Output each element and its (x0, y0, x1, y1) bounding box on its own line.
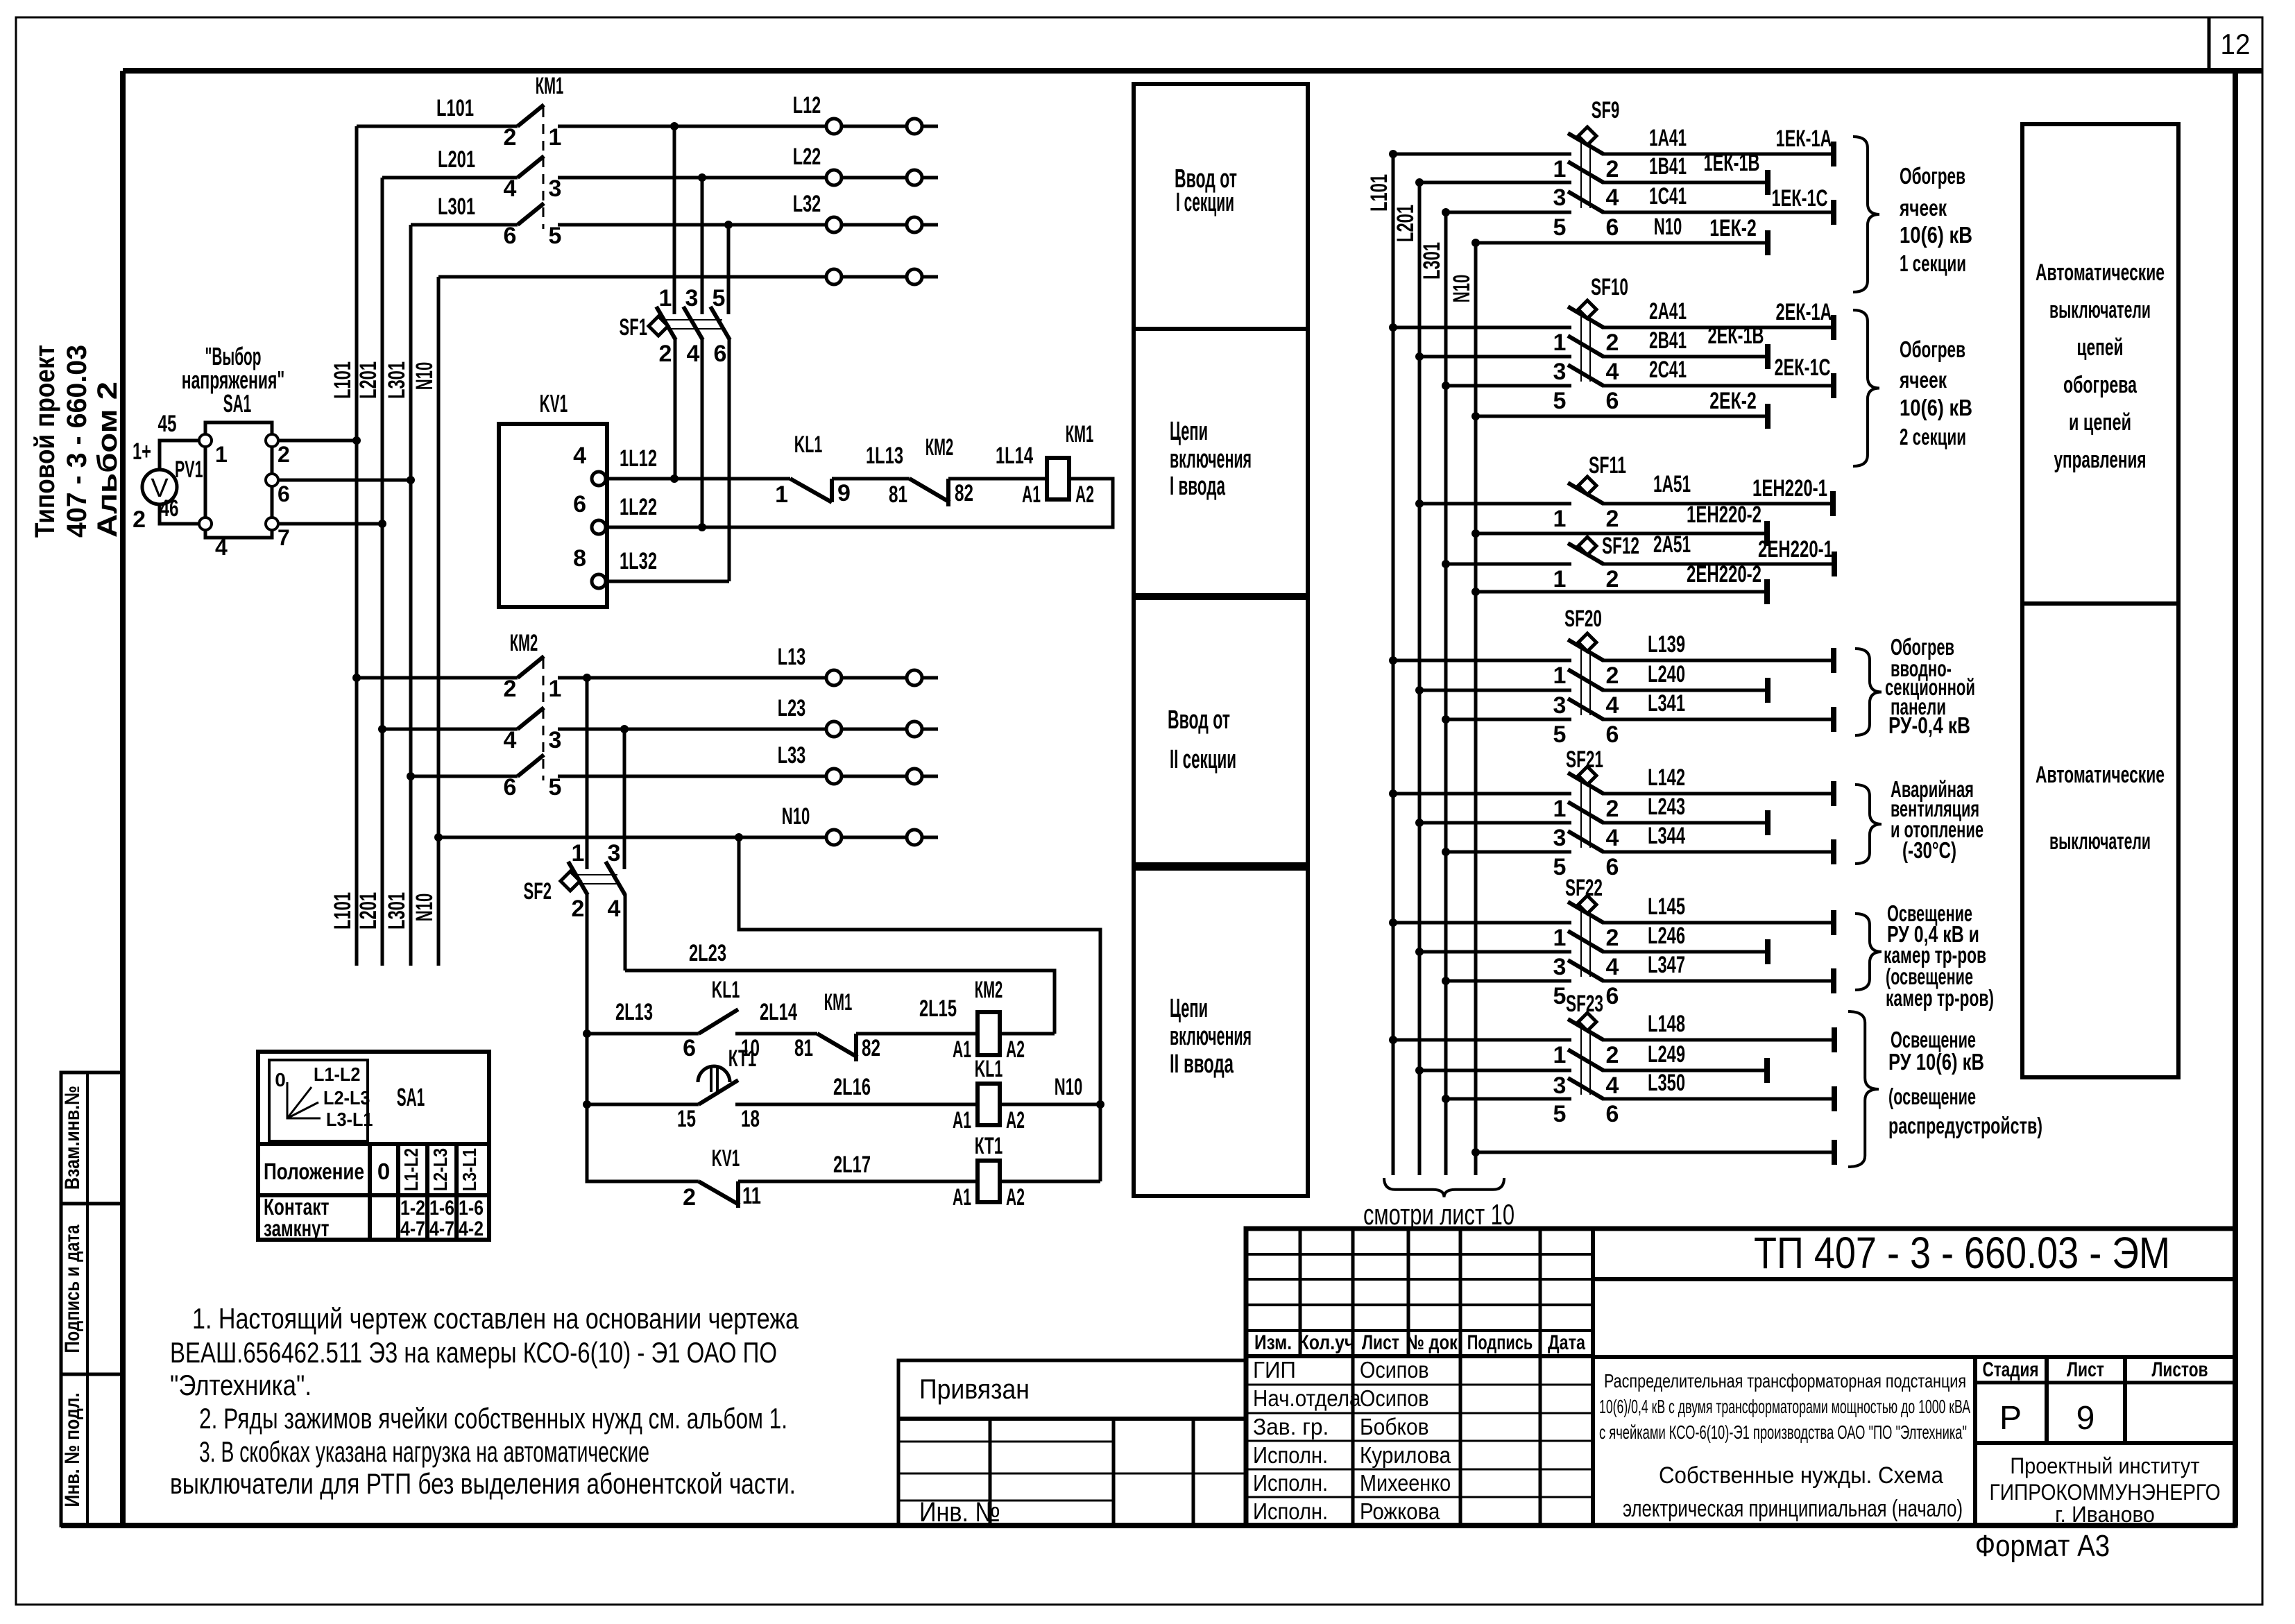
terminal circle L13 b (907, 670, 922, 685)
svg-text:1: 1 (1553, 506, 1567, 532)
main frame left line (120, 71, 126, 1525)
svg-text:Обогрев: Обогрев (1900, 336, 1965, 362)
svg-text:Кол.уч: Кол.уч (1299, 1331, 1355, 1354)
wire 2L13 (587, 1032, 699, 1036)
svg-text:выключатели: выключатели (2049, 297, 2151, 323)
breaker SF1 diamond (649, 316, 668, 336)
terminal tick L246 (1765, 939, 1771, 964)
junction L101 on bus (352, 674, 361, 682)
breaker SF23 diamond (1578, 1013, 1596, 1031)
svg-text:6: 6 (1606, 388, 1619, 414)
wire SF21 L344 output (1602, 851, 1834, 854)
svg-text:Зав. гр.: Зав. гр. (1253, 1414, 1329, 1439)
main frame top line (123, 68, 2262, 74)
breaker SF9 blade (1568, 133, 1603, 154)
wire 1L12 (606, 477, 790, 481)
svg-text:3: 3 (1553, 692, 1567, 719)
svg-text:1L12: 1L12 (620, 445, 657, 472)
wire 1A51 output (1602, 502, 1833, 506)
junction SF12 N10 (1471, 588, 1480, 596)
svg-text:электрическая принципиальная (: электрическая принципиальная (начало) (1623, 1496, 1963, 1522)
svg-text:9: 9 (837, 480, 851, 506)
svg-text:5: 5 (1553, 983, 1567, 1009)
svg-text:1-6: 1-6 (429, 1197, 454, 1220)
terminal circle L22 b (907, 170, 922, 185)
terminal circle N10t a (826, 269, 842, 284)
breaker SF10 diamond (1578, 300, 1596, 318)
wire SF23 pole input (1393, 1038, 1571, 1042)
svg-text:6: 6 (1606, 854, 1619, 880)
svg-text:2C41: 2C41 (1649, 357, 1687, 383)
bus L101 vertical (355, 126, 359, 966)
svg-text:1: 1 (1553, 566, 1567, 592)
wire SF10 2C41 output (1602, 384, 1834, 388)
breaker SF21 tie 1 (1580, 783, 1582, 848)
table SA1 hline 2 (258, 1193, 489, 1197)
terminal tick 1C41 (1831, 200, 1836, 225)
svg-text:L350: L350 (1648, 1070, 1685, 1096)
Привязан h3 (898, 1500, 1114, 1502)
wire SF22 pole input (1419, 950, 1571, 954)
breaker SF11 diamond (1578, 477, 1596, 495)
terminal circle L32 a (826, 217, 842, 232)
wire 2ЕН220-2 row (1476, 590, 1767, 594)
svg-text:A2: A2 (1075, 481, 1094, 508)
svg-text:КМ1: КМ1 (824, 989, 853, 1016)
svg-text:1L22: 1L22 (620, 494, 657, 520)
svg-text:N10: N10 (411, 894, 438, 922)
brace SF10 group (1853, 310, 1879, 466)
wire SF12 input (1446, 563, 1571, 566)
wire SF20 L341 output (1602, 718, 1834, 721)
svg-text:5: 5 (713, 285, 726, 311)
junction SF21 L344 (1442, 848, 1450, 856)
svg-text:6: 6 (278, 481, 290, 506)
wire final N10 row (1476, 1151, 1834, 1154)
wire SF20 L139 output (1602, 659, 1834, 663)
KV1 pin circle 4 (592, 472, 606, 486)
breaker SF20 blade (1568, 669, 1603, 690)
table SA1 outer box (258, 1052, 489, 1240)
junction SF22 L347 (1442, 977, 1450, 985)
wire SF9 N10 row (1476, 241, 1768, 245)
contact KV1 blade (row C) (699, 1181, 740, 1205)
wire L301 feeder (411, 223, 518, 227)
wire KT1 coil out (1000, 1180, 1100, 1183)
svg-text:обогрева: обогрева (2063, 372, 2138, 398)
svg-text:2ЕН220-2: 2ЕН220-2 (1687, 561, 1761, 588)
svg-text:L3-L1: L3-L1 (459, 1148, 480, 1191)
svg-text:3: 3 (549, 176, 562, 202)
svg-text:4: 4 (1606, 185, 1619, 211)
terminal circle L23 a (826, 721, 842, 737)
Привязан v1 (989, 1419, 992, 1525)
svg-text:(освещение: (освещение (1888, 1084, 1976, 1109)
table SA1 vline 1 (368, 1144, 372, 1240)
wire SF10 2А41 output (1602, 326, 1834, 330)
terminal tick L249 (1764, 1058, 1770, 1083)
svg-text:1B41: 1B41 (1649, 153, 1687, 180)
wire SF20 pole input (1393, 659, 1571, 663)
wire L32 to terminals (558, 223, 938, 227)
wire SF9 pole input (1446, 211, 1571, 214)
wire SF10 2B41 output (1602, 355, 1768, 359)
svg-text:Изм.: Изм. (1254, 1331, 1292, 1354)
svg-text:1: 1 (549, 124, 562, 151)
junction SF20 L240 (1415, 686, 1424, 694)
coil KT1 (978, 1161, 1000, 1202)
svg-text:Листов: Листов (2152, 1358, 2208, 1381)
breaker SF23 blade (1568, 1019, 1603, 1040)
title name row line 3 (1246, 1469, 1593, 1471)
svg-text:L301: L301 (1419, 242, 1445, 280)
terminal circle L33 a (826, 769, 842, 784)
svg-text:2: 2 (504, 676, 517, 702)
title line under doc (1593, 1277, 2235, 1281)
wire L23 to terminals (558, 728, 938, 731)
svg-text:15: 15 (677, 1106, 696, 1132)
svg-text:SF10: SF10 (1591, 274, 1628, 300)
svg-text:Р: Р (1999, 1400, 2022, 1437)
svg-text:L201: L201 (1392, 205, 1419, 242)
breaker SF20 blade (1568, 640, 1603, 660)
title small row line 1 (1246, 1278, 1593, 1281)
svg-text:2: 2 (1606, 566, 1619, 592)
wire 2L16 (735, 1103, 978, 1106)
wire PV1 bottom (160, 504, 203, 524)
svg-text:L246: L246 (1648, 923, 1685, 949)
wire 2L23 (625, 971, 1055, 1034)
svg-text:L145: L145 (1648, 894, 1685, 920)
svg-text:2L17: 2L17 (833, 1152, 871, 1178)
svg-text:КТ1: КТ1 (728, 1045, 757, 1072)
wire pole3 drop (727, 225, 731, 314)
svg-text:КТ1: КТ1 (975, 1133, 1003, 1159)
breaker SF21 blade (1568, 802, 1603, 823)
svg-text:5: 5 (549, 223, 562, 249)
terminal tick L139 (1831, 648, 1836, 673)
svg-text:2: 2 (504, 124, 517, 151)
svg-text:2: 2 (278, 442, 290, 467)
wire KL1 coil out (1000, 1103, 1100, 1106)
svg-text:Цепи: Цепи (1170, 417, 1208, 446)
svg-text:замкнут: замкнут (264, 1215, 330, 1241)
title name row line 1 (1246, 1412, 1593, 1414)
contact KM2 NC hook (row I) (946, 479, 950, 506)
svg-text:4: 4 (1606, 359, 1619, 385)
breaker SF11 blade (1568, 483, 1603, 504)
breaker SF10 blade (1568, 307, 1603, 327)
wire SF9 pole input (1419, 181, 1571, 185)
terminal tick 2А41 (1831, 315, 1836, 340)
wire SF10 pole input (1419, 355, 1571, 359)
bus N10 vertical (437, 277, 441, 966)
contact KM2 pole 1 blade (518, 656, 544, 678)
svg-text:PV1: PV1 (175, 456, 203, 483)
svg-text:1C41: 1C41 (1649, 183, 1687, 210)
svg-text:4: 4 (573, 443, 586, 469)
svg-text:KL1: KL1 (975, 1056, 1003, 1082)
brace SF20 group (1855, 649, 1882, 735)
wire SF23 pole input (1419, 1069, 1571, 1072)
SA1 pin circle 2 (266, 434, 278, 447)
title stadia col2 (2045, 1357, 2049, 1443)
svg-text:7: 7 (278, 525, 290, 550)
svg-text:(-30°С): (-30°С) (1902, 837, 1956, 863)
wire L22 to terminals (558, 176, 938, 180)
wire SF2 pole1 drop (586, 678, 589, 869)
wire 2A51 output (1602, 563, 1834, 566)
wire SF21 pole input (1419, 821, 1571, 825)
junction SA1-L301 (407, 476, 415, 484)
table SA1 vline 3 (425, 1144, 429, 1240)
svg-text:46: 46 (160, 495, 179, 522)
breaker SF20 diamond (1578, 633, 1596, 651)
terminal tick SF10 (1765, 404, 1771, 429)
box Цепи включения I ввода (1134, 329, 1308, 595)
terminal tick L145 (1831, 910, 1836, 935)
contact KV1 hook (row C) (736, 1181, 740, 1208)
svg-text:1ЕК-1В: 1ЕК-1В (1704, 150, 1760, 176)
svg-text:KL1: KL1 (712, 977, 740, 1003)
svg-text:A2: A2 (1006, 1036, 1025, 1063)
breaker SF22 blade (1568, 931, 1603, 952)
junction SF20 L341 (1442, 715, 1450, 724)
wire SF22 L246 output (1602, 950, 1768, 954)
terminal circle L23 b (907, 721, 922, 737)
bus L201 right (1418, 182, 1422, 1175)
svg-text:3: 3 (1553, 954, 1567, 980)
svg-text:4-7: 4-7 (429, 1217, 454, 1240)
junction L13 (583, 674, 591, 682)
svg-text:2B41: 2B41 (1649, 327, 1687, 354)
title col line (short) 1 (1407, 1229, 1410, 1356)
svg-text:A1: A1 (953, 1184, 971, 1211)
svg-text:L201: L201 (355, 361, 382, 399)
svg-text:2L14: 2L14 (760, 999, 797, 1025)
svg-text:L201: L201 (355, 892, 382, 930)
KV1 pin circle 6 (592, 520, 606, 534)
svg-text:цепей: цепей (2077, 334, 2124, 361)
terminal circle N10b b (907, 830, 922, 845)
svg-text:1 секции: 1 секции (1900, 250, 1966, 276)
svg-text:включения: включения (1170, 1022, 1252, 1051)
svg-text:1-2: 1-2 (400, 1197, 425, 1220)
box Цепи включения II ввода (1134, 869, 1308, 1196)
svg-text:SA1: SA1 (223, 389, 252, 418)
terminal tick 2B41 (1765, 344, 1771, 369)
Привязан row line (898, 1417, 1246, 1421)
wire PV1 top (160, 441, 203, 470)
wire 2L17 (738, 1180, 978, 1183)
breaker SF9 diamond (1578, 127, 1596, 145)
wire 2L14 (735, 1032, 817, 1036)
svg-text:9: 9 (2076, 1400, 2095, 1437)
breaker SF20 blade (1568, 699, 1603, 719)
svg-text:1: 1 (1553, 1042, 1567, 1068)
svg-text:A1: A1 (953, 1107, 971, 1134)
table SA1 hline 1 (258, 1142, 489, 1146)
junction SA1-L201 (378, 520, 386, 528)
wire SF23 L350 output (1602, 1097, 1834, 1101)
junction SA1-L101 (352, 436, 361, 445)
svg-text:2: 2 (1606, 156, 1619, 182)
svg-text:6: 6 (573, 491, 586, 518)
junction SF20 L139 (1389, 656, 1397, 665)
svg-text:6: 6 (504, 774, 517, 801)
svg-text:KL1: KL1 (794, 431, 823, 458)
bus L301 right (1444, 212, 1448, 1175)
svg-text:8: 8 (573, 545, 586, 572)
svg-text:1: 1 (1553, 330, 1567, 356)
breaker SF20 tie 1 (1580, 649, 1582, 715)
wire SF21 pole input (1393, 792, 1571, 796)
svg-text:3: 3 (549, 727, 562, 753)
svg-text:L240: L240 (1648, 661, 1685, 687)
breaker SF10 tie 2 (1589, 316, 1591, 382)
table SA1 mini box (269, 1060, 368, 1141)
breaker SF20 tie 2 (1589, 649, 1591, 715)
svg-text:2: 2 (1606, 796, 1619, 822)
svg-text:2: 2 (572, 896, 585, 922)
svg-text:L33: L33 (778, 742, 806, 769)
svg-text:L22: L22 (793, 144, 821, 170)
svg-text:L2-L3: L2-L3 (429, 1148, 451, 1191)
SA1 pin circle 7 (266, 518, 278, 530)
breaker SF1 blade 1 (656, 307, 676, 340)
junction SF10 2А41 (1389, 323, 1397, 332)
brace SF23 group (1848, 1011, 1879, 1167)
contact KM1 NC hook (row A) (854, 1034, 858, 1061)
svg-text:L101: L101 (1366, 174, 1392, 212)
wire SF21 L243 output (1602, 821, 1768, 825)
svg-text:управления: управления (2054, 447, 2147, 473)
voltmeter PV1 circle (142, 470, 177, 504)
svg-text:Бобков: Бобков (1360, 1414, 1429, 1439)
svg-text:2: 2 (1606, 330, 1619, 356)
breaker SF2 blade 1 (568, 862, 588, 895)
terminal circle L33 b (907, 769, 922, 784)
terminal tick L142 (1831, 781, 1836, 806)
svg-text:L249: L249 (1648, 1041, 1685, 1068)
junction L23 (620, 725, 629, 733)
contact KT1 blade (row B) (699, 1080, 738, 1104)
wire 1L12 drop (674, 339, 677, 479)
svg-text:5: 5 (549, 774, 562, 801)
breaker SF23 tie 1 (1580, 1029, 1582, 1095)
terminal tick L240 (1765, 678, 1771, 703)
svg-text:выключатели: выключатели (2049, 828, 2151, 855)
svg-text:Осипов: Осипов (1360, 1357, 1429, 1383)
title stadia col (1973, 1357, 1977, 1525)
wire 2L17 left (587, 1104, 699, 1181)
svg-text:N10: N10 (1449, 275, 1475, 303)
junction SF12 in (1442, 560, 1450, 568)
svg-text:2. Ряды зажимов ячейки собстве: 2. Ряды зажимов ячейки собственных нужд … (199, 1402, 787, 1435)
title col line 1 (1459, 1229, 1462, 1525)
main frame bottom line (61, 1523, 2235, 1528)
junction final N10 (1471, 1148, 1480, 1156)
svg-text:5: 5 (1553, 854, 1567, 880)
breaker SF22 blade (1568, 960, 1603, 981)
Привязан v2 (1112, 1419, 1116, 1525)
coil KM2 (978, 1012, 1000, 1055)
svg-text:II секции: II секции (1170, 745, 1236, 774)
svg-text:L142: L142 (1648, 764, 1685, 791)
svg-text:81: 81 (889, 481, 907, 508)
wire SF20 pole input (1419, 689, 1571, 692)
svg-text:SF9: SF9 (1592, 97, 1620, 123)
svg-text:1А41: 1А41 (1649, 125, 1687, 151)
svg-text:407 - 3 - 660.03: 407 - 3 - 660.03 (62, 345, 92, 538)
wire SF10 pole input (1446, 384, 1571, 388)
breaker SF9 blade (1568, 162, 1603, 182)
svg-text:A2: A2 (1006, 1107, 1025, 1134)
svg-text:камер тр-ров): камер тр-ров) (1886, 985, 1994, 1011)
wire L33 to terminals (558, 775, 938, 778)
terminal tick 2ЕН220-2 (1764, 579, 1770, 604)
svg-text:I ввода: I ввода (1170, 472, 1226, 501)
terminal circle L13 a (826, 670, 842, 685)
svg-text:Собственные нужды. Схема: Собственные нужды. Схема (1659, 1462, 1943, 1489)
junction 1L22 (698, 523, 706, 531)
svg-text:2ЕК-1В: 2ЕК-1В (1708, 323, 1764, 349)
svg-text:L301: L301 (384, 892, 410, 930)
wire L101 feeder (357, 676, 518, 680)
Привязан h1 (898, 1441, 1114, 1443)
svg-text:10(6)/0,4 кВ с двумя трансформ: 10(6)/0,4 кВ с двумя трансформаторами мо… (1599, 1396, 1970, 1417)
svg-text:2ЕК-2: 2ЕК-2 (1709, 388, 1757, 414)
svg-text:г. Иваново: г. Иваново (2055, 1502, 2155, 1527)
svg-text:1: 1 (215, 442, 228, 467)
svg-text:Положение: Положение (264, 1159, 364, 1184)
breaker SF22 tie 2 (1589, 912, 1591, 977)
svg-text:Курилова: Курилова (1360, 1442, 1451, 1468)
svg-text:6: 6 (683, 1035, 696, 1061)
svg-text:КМ1: КМ1 (1066, 421, 1094, 447)
wire SF22 L347 output (1602, 980, 1834, 983)
breaker SF23 tie 2 (1589, 1029, 1591, 1095)
terminal circle L22 a (826, 170, 842, 185)
breaker SF10 blade (1568, 365, 1603, 386)
junction SF23 L350 (1442, 1095, 1450, 1103)
svg-text:3: 3 (685, 285, 699, 311)
title header row line (1246, 1354, 1593, 1358)
junction SF11 N10 (1471, 529, 1480, 538)
svg-text:L301: L301 (384, 361, 410, 399)
wire 1ЕН220-2 row (1476, 532, 1767, 536)
wire 1L32 drop (728, 339, 731, 581)
svg-text:Альбом 2: Альбом 2 (92, 382, 123, 538)
svg-text:выключатели для РТП без выделе: выключатели для РТП без выделения абонен… (170, 1467, 796, 1500)
breaker SF23 blade (1568, 1078, 1603, 1099)
svg-text:Нач.отдела: Нач.отдела (1253, 1385, 1361, 1411)
title stadia header line (1975, 1381, 2235, 1385)
KV1 pin circle 8 (592, 574, 606, 588)
junction L12 (670, 122, 679, 130)
title col line 0 (1351, 1229, 1355, 1525)
svg-text:1: 1 (572, 840, 585, 866)
svg-text:2А41: 2А41 (1649, 298, 1687, 325)
coil KL1 (978, 1084, 1000, 1125)
svg-text:2ЕК-1С: 2ЕК-1С (1775, 354, 1831, 381)
SA1 pin circle 6 (266, 474, 278, 486)
title small row line 3 (1246, 1329, 1593, 1332)
svg-text:4: 4 (1606, 954, 1619, 980)
svg-text:L243: L243 (1648, 794, 1685, 820)
svg-text:3: 3 (1553, 185, 1567, 211)
svg-text:N10: N10 (782, 803, 810, 830)
